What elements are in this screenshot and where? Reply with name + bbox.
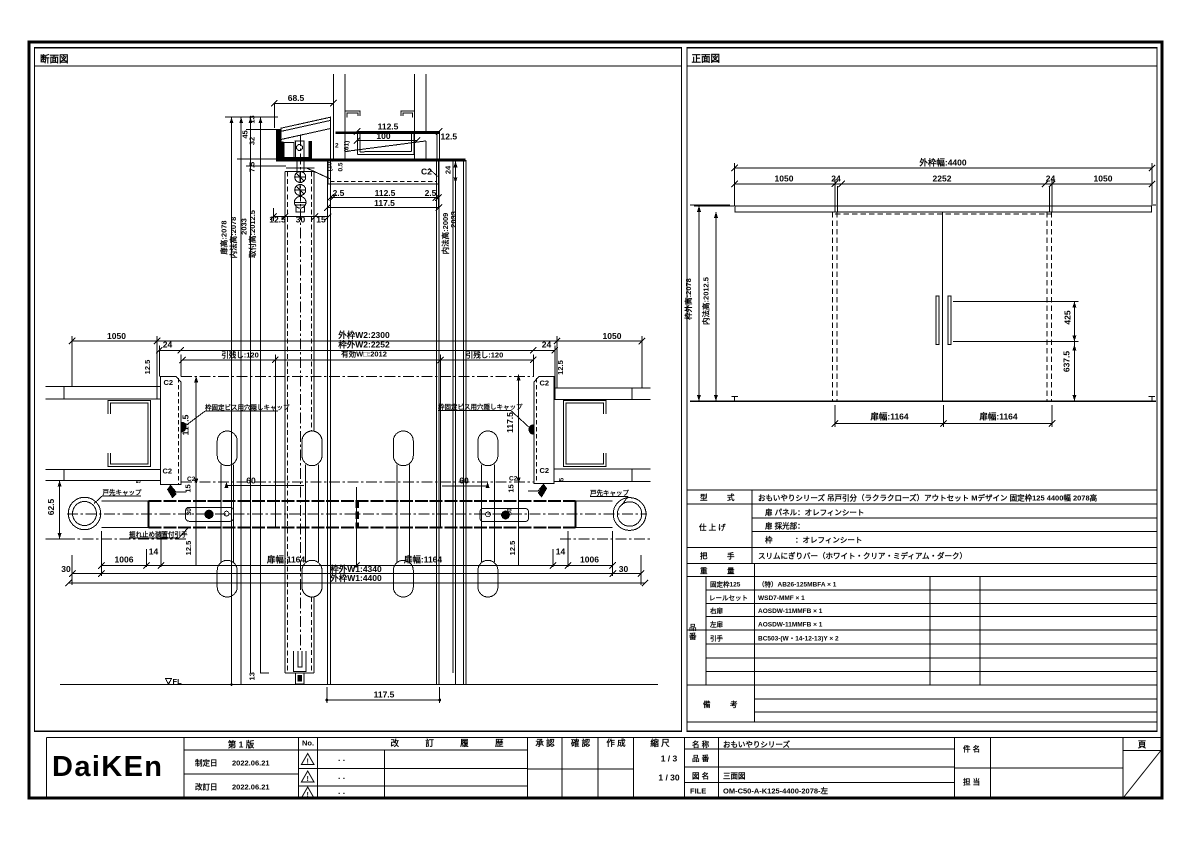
svg-text:正面図: 正面図 — [692, 54, 721, 65]
handle bar left door — [936, 296, 939, 344]
svg-text:!: ! — [307, 759, 309, 766]
dimension 117.5 jamb left — [195, 376, 197, 565]
spec row lines — [688, 503, 1157, 505]
svg-text:C2: C2 — [540, 466, 550, 475]
svg-text:12.5: 12.5 — [269, 215, 286, 225]
svg-text:扉幅:1164: 扉幅:1164 — [266, 555, 306, 565]
svg-text:425: 425 — [1062, 310, 1072, 324]
svg-text:量: 量 — [727, 566, 735, 576]
svg-text:5: 5 — [136, 479, 143, 483]
adjuster base — [296, 205, 305, 212]
svg-text:備: 備 — [703, 699, 711, 709]
hanger side bar right (solid) — [309, 141, 312, 160]
svg-text:スリムにぎりバー（ホワイト・クリア・ミディアム・ダーク）: スリムにぎりバー（ホワイト・クリア・ミディアム・ダーク） — [758, 551, 967, 561]
svg-text:引手: 引手 — [710, 633, 724, 642]
svg-text:112.5: 112.5 — [378, 122, 399, 132]
svg-text:確 認: 確 認 — [570, 738, 591, 748]
bottom dim row 4400 — [69, 582, 645, 584]
dim line 内法高2078 — [240, 117, 242, 684]
svg-text:32: 32 — [248, 137, 257, 145]
handle bar capsule 2 — [302, 431, 322, 466]
svg-text:100: 100 — [376, 131, 390, 141]
top frame bar (lintel) — [735, 206, 1152, 212]
floor guide foot — [295, 673, 304, 684]
floor guide (black U) — [294, 651, 307, 671]
cell dividers vertical — [183, 738, 185, 798]
svg-text:24: 24 — [1046, 173, 1056, 183]
ceiling line (thick) — [276, 159, 466, 162]
svg-text:BC503-(W・14-12-13)Y × 2: BC503-(W・14-12-13)Y × 2 — [758, 635, 839, 642]
svg-text:2252: 2252 — [933, 173, 952, 183]
wall lower-right (plan) — [554, 468, 650, 470]
rail end plate right — [436, 131, 438, 159]
dim line 2033 — [250, 117, 252, 673]
hanger bolt shaft (thick sides) — [294, 141, 296, 160]
dimension 2.5/112.5/2.5 — [330, 184, 332, 208]
svg-text:おもいやりシリーズ: おもいやりシリーズ — [723, 739, 790, 749]
door panel left edge — [284, 172, 286, 673]
hanging rail support (thick) — [336, 131, 441, 133]
plan dim row 1050/2300/1050 — [72, 340, 642, 342]
svg-text:!: ! — [307, 776, 309, 783]
wall stud channel right (plan) — [564, 401, 607, 467]
dimension 60 left — [226, 485, 304, 487]
FL level mark — [166, 679, 172, 685]
svg-text:把: 把 — [700, 551, 708, 561]
svg-text:番: 番 — [688, 631, 697, 641]
svg-text:内法高:2012.5: 内法高:2012.5 — [701, 277, 711, 325]
svg-text:12.5: 12.5 — [184, 541, 193, 556]
rail slope line to cover — [345, 141, 426, 152]
door band centerline dash — [67, 513, 647, 515]
svg-text:制定日: 制定日 — [195, 758, 218, 768]
svg-text:外枠W2:2300: 外枠W2:2300 — [337, 330, 390, 340]
rail cover dashed seam — [330, 181, 437, 183]
svg-text:件 名: 件 名 — [963, 744, 980, 754]
door leaf band bottom — [102, 526, 149, 528]
svg-text:C2: C2 — [164, 378, 174, 387]
dimension 117.5 (bottom) — [327, 699, 440, 701]
svg-text:2.5: 2.5 — [333, 188, 345, 198]
door panel right edge — [313, 172, 315, 432]
svg-text:手: 手 — [727, 551, 735, 561]
door meeting stile — [942, 212, 944, 401]
door band left end (thick) — [147, 501, 149, 528]
jamb fixing arrow right (solid) — [538, 484, 548, 498]
件名 block row — [955, 767, 1123, 769]
svg-text:枠 ：オレフィンシート: 枠 ：オレフィンシート — [764, 535, 862, 545]
ceiling line stubs — [690, 204, 730, 206]
bottom dim row 4340 — [72, 573, 641, 575]
recessed pull right — [480, 509, 529, 522]
wall lower-left (plan) — [46, 469, 161, 471]
dimension 13 (floor to door) — [260, 672, 269, 674]
dimension 117.5 (cover) — [328, 207, 440, 209]
rail cover box — [328, 161, 439, 184]
wall stud left pair — [333, 74, 335, 159]
dim line 取付高2012.5 — [260, 117, 262, 673]
hanger side bar left (solid) — [281, 142, 284, 160]
svg-text:1050: 1050 — [1094, 173, 1113, 183]
bottom dim row 14 left — [146, 549, 148, 558]
wall upper-left (plan) — [46, 386, 161, 388]
svg-text:三面図: 三面図 — [723, 772, 746, 781]
svg-text:117.5: 117.5 — [374, 198, 395, 208]
meeting stile dashes center — [356, 501, 359, 528]
svg-text:12.5: 12.5 — [441, 132, 458, 142]
svg-text:扉 パネル：オレフィンシート: 扉 パネル：オレフィンシート — [764, 507, 864, 517]
svg-text:. .: . . — [338, 786, 345, 796]
svg-text:図 名: 図 名 — [692, 771, 709, 781]
svg-text:24: 24 — [163, 340, 173, 350]
dimension 12.5/30/15 (door top) — [273, 216, 328, 218]
dimension 100 (rail) — [357, 140, 417, 142]
handle bar capsule 3 — [393, 431, 413, 466]
svg-text:(61): (61) — [344, 141, 351, 153]
extension line cover bottom — [246, 165, 286, 167]
door panel left inner (dashed) — [287, 172, 289, 673]
end cap circle right — [613, 498, 646, 531]
svg-text:名 称: 名 称 — [692, 739, 710, 749]
svg-text:68.5: 68.5 — [288, 93, 305, 103]
page cell row — [1123, 750, 1161, 752]
rail centerline dash-dot — [181, 481, 534, 483]
door centerline (dash-dot) — [299, 135, 301, 650]
dimension 112.5 (rail) — [357, 130, 439, 132]
svg-text:外枠幅:4400: 外枠幅:4400 — [918, 158, 967, 168]
revision area row lines — [184, 749, 528, 751]
svg-text:62.5: 62.5 — [46, 498, 56, 515]
door leaf left edge (double dashed) — [832, 212, 834, 401]
svg-text:固定枠125: 固定枠125 — [710, 580, 741, 589]
dimension 117.5 jamb right — [518, 374, 520, 565]
svg-text:1050: 1050 — [775, 173, 794, 183]
dimension 68.5 — [274, 102, 333, 104]
door panel right inner (dashed) — [311, 172, 313, 432]
svg-text:FILE: FILE — [690, 787, 706, 796]
svg-text:1006: 1006 — [115, 555, 134, 565]
title block outline — [47, 737, 1162, 739]
plan dim extension lines — [71, 336, 73, 387]
svg-text:断面図: 断面図 — [40, 54, 69, 66]
dim extension verticals top — [734, 163, 736, 206]
svg-text:右扉: 右扉 — [709, 606, 724, 615]
door leaf band top — [102, 500, 149, 502]
svg-text:30: 30 — [296, 215, 306, 225]
approval mid line — [528, 768, 634, 770]
svg-text:24: 24 — [831, 173, 841, 183]
svg-text:. .: . . — [338, 771, 345, 781]
svg-text:5: 5 — [559, 477, 566, 481]
plan dim row 24/2252/24 — [159, 349, 555, 351]
svg-text:枠固定ビス用穴隠しキャップ: 枠固定ビス用穴隠しキャップ — [205, 403, 290, 412]
svg-text:仕 上 げ: 仕 上 げ — [698, 522, 726, 532]
svg-text:2022.06.21: 2022.06.21 — [232, 783, 270, 792]
bottom dim row 14 right — [552, 549, 554, 558]
svg-text:No.: No. — [302, 739, 314, 748]
door fixing screw 1 — [295, 172, 306, 183]
dimension 枠外高:2078 — [698, 206, 700, 401]
rail cover chamfer C2 — [429, 169, 438, 177]
svg-text:AOSDW-11MMFB × 1: AOSDW-11MMFB × 1 — [758, 621, 823, 628]
wall upper-right (plan) — [554, 387, 650, 389]
svg-text:13: 13 — [248, 672, 257, 680]
door top plate — [286, 167, 315, 169]
svg-text:. .: . . — [338, 753, 345, 763]
svg-text:2: 2 — [335, 143, 339, 150]
svg-text:（特）AB26-125MBFA × 1: （特）AB26-125MBFA × 1 — [758, 580, 837, 589]
door fixing screw 2 — [295, 185, 306, 196]
door stop extension lines — [274, 355, 276, 529]
svg-text:117.5: 117.5 — [374, 690, 395, 700]
svg-text:14: 14 — [149, 547, 159, 557]
svg-text:戸先キャップ: 戸先キャップ — [103, 488, 143, 497]
svg-text:品: 品 — [689, 623, 697, 632]
extension line ceiling — [237, 158, 277, 160]
floor line — [60, 684, 658, 686]
ceiling clip left — [345, 111, 360, 118]
svg-text:頁: 頁 — [1138, 740, 1147, 750]
svg-text:2.5: 2.5 — [425, 188, 437, 198]
svg-text:C2: C2 — [509, 476, 518, 483]
svg-text:外枠W1:4400: 外枠W1:4400 — [329, 573, 382, 583]
hanger roller — [297, 145, 303, 151]
svg-text:2022.06.21: 2022.06.21 — [232, 759, 270, 768]
handle bar right door — [948, 296, 951, 344]
svg-text:117.5: 117.5 — [505, 412, 515, 433]
svg-text:2033: 2033 — [449, 211, 458, 228]
svg-text:112.5: 112.5 — [375, 188, 396, 198]
svg-text:DaiKEn: DaiKEn — [52, 751, 163, 783]
svg-text:12.5: 12.5 — [556, 360, 565, 375]
bracket cover inner slope — [281, 120, 331, 131]
svg-text:30: 30 — [186, 508, 193, 516]
svg-text:30: 30 — [619, 564, 629, 574]
jamb foot mark right — [1149, 397, 1156, 401]
svg-text:60: 60 — [459, 476, 469, 486]
svg-text:品 番: 品 番 — [692, 753, 710, 763]
wall stud channel left (plan) — [108, 401, 151, 467]
door travel line right dash-dot — [560, 538, 651, 540]
right panel label strip line — [687, 65, 1157, 67]
svg-text:扉幅:1164: 扉幅:1164 — [869, 412, 909, 422]
svg-text:承 認: 承 認 — [535, 738, 555, 748]
floor line (elevation) — [690, 400, 1156, 402]
plan dim row 引残し/有効W — [182, 359, 533, 361]
svg-text:担 当: 担 当 — [963, 777, 980, 787]
svg-text:1050: 1050 — [603, 331, 622, 341]
svg-text:0.5: 0.5 — [338, 162, 345, 171]
rail dashed behind lintel — [835, 213, 1052, 215]
svg-text:15: 15 — [507, 484, 516, 492]
svg-text:24: 24 — [542, 340, 552, 350]
wall finish line pair right — [452, 162, 454, 673]
svg-text:12.5: 12.5 — [508, 541, 517, 556]
hanger bolt — [297, 159, 304, 171]
svg-text:1006: 1006 — [580, 555, 599, 565]
left panel label strip line — [35, 65, 682, 67]
svg-text:C2: C2 — [540, 379, 550, 388]
dimension 扉幅:1164 x2 — [835, 423, 1052, 425]
svg-text:FL: FL — [173, 677, 183, 686]
svg-text:24: 24 — [444, 165, 453, 174]
jamb screw cap left (solid) — [181, 422, 187, 433]
dimension 60 right — [442, 485, 488, 487]
door fixing screw 3 (adjuster) — [294, 197, 306, 209]
name block rows — [684, 748, 954, 750]
hanger base plate (solid) — [281, 157, 312, 160]
svg-text:考: 考 — [730, 699, 738, 709]
handle bar capsule 1 — [217, 431, 237, 466]
svg-text:枠外W2:2252: 枠外W2:2252 — [338, 340, 390, 350]
dimension 24 (cover) rotated — [455, 161, 457, 183]
svg-text:13: 13 — [248, 115, 257, 123]
svg-text:!: ! — [307, 792, 309, 799]
svg-text:引残し:120: 引残し:120 — [221, 350, 259, 360]
svg-text:30: 30 — [506, 508, 513, 516]
dimension 62.5 — [59, 481, 61, 540]
svg-text:枠固定ビス用穴隠しキャップ: 枠固定ビス用穴隠しキャップ — [438, 402, 523, 411]
door band right end (thick) — [574, 501, 576, 528]
svg-text:レールセット: レールセット — [709, 594, 748, 602]
svg-text:1 / 30: 1 / 30 — [658, 773, 680, 783]
extension line top of dims — [225, 116, 278, 118]
svg-text:WSD7-MMF × 1: WSD7-MMF × 1 — [758, 595, 805, 602]
C2 leader bottom-left jamb — [170, 485, 186, 492]
spec table top line — [688, 489, 1157, 491]
svg-text:おもいやりシリーズ 吊戸引分（ラクラクローズ）アウトセット: おもいやりシリーズ 吊戸引分（ラクラクローズ）アウトセット Mデザイン 固定枠1… — [758, 493, 1098, 503]
ceiling clip right — [401, 111, 414, 118]
jamb fixing arrow left (solid) — [167, 485, 177, 499]
svg-text:扉幅:1164: 扉幅:1164 — [978, 412, 1018, 422]
bracket sloped cover — [281, 117, 331, 159]
warning triangles — [301, 754, 314, 765]
hanging rail C-profile — [358, 134, 414, 155]
svg-text:14: 14 — [556, 547, 566, 557]
svg-text:C2: C2 — [421, 167, 432, 177]
svg-text:重: 重 — [700, 566, 708, 576]
dimension 1050/24/2252/24/1050 — [735, 183, 1152, 185]
bracket wall plate (solid) — [276, 129, 281, 160]
svg-text:OM-C50-A-K125-4400-2078-左: OM-C50-A-K125-4400-2078-左 — [723, 786, 829, 796]
svg-text:縮 尺: 縮 尺 — [650, 738, 670, 748]
svg-text:有効W□:2012: 有効W□:2012 — [341, 349, 387, 359]
svg-text:7.5: 7.5 — [248, 162, 257, 172]
svg-text:改訂日: 改訂日 — [195, 782, 218, 792]
svg-text:第 1 版: 第 1 版 — [228, 740, 255, 750]
wall line right (thick pair) — [463, 160, 465, 685]
header projection dash-dot — [181, 376, 534, 378]
C2 leader bottom-right jamb — [528, 484, 544, 491]
bottom dim row 1006/1164 — [101, 565, 612, 567]
svg-text:15: 15 — [316, 215, 326, 225]
svg-text:637.5: 637.5 — [1061, 351, 1071, 373]
svg-text:枠外高:2078: 枠外高:2078 — [683, 278, 693, 321]
svg-text:作 成: 作 成 — [606, 738, 626, 748]
svg-text:左扉: 左扉 — [709, 619, 724, 628]
svg-text:60: 60 — [246, 476, 256, 486]
svg-text:12.5: 12.5 — [143, 360, 152, 375]
end cap circle left — [68, 497, 100, 529]
jamb foot mark left — [732, 397, 739, 401]
hanger body left block — [284, 142, 294, 158]
door bottom edge — [285, 672, 314, 674]
svg-text:15: 15 — [184, 484, 193, 492]
door leaf right edge (double dashed) — [1046, 212, 1048, 401]
dimension 外枠幅:4400 — [735, 167, 1152, 169]
svg-text:式: 式 — [727, 492, 735, 502]
svg-text:C2: C2 — [163, 467, 173, 476]
recessed pull left — [186, 507, 234, 521]
handle bar capsule 4 — [478, 431, 498, 466]
svg-text:内法高:2078: 内法高:2078 — [228, 217, 238, 259]
svg-text:型: 型 — [700, 492, 708, 502]
wall stud right pair — [413, 74, 415, 159]
fixed frame jamb right (plan) — [534, 376, 554, 483]
svg-text:扉高:2078: 扉高:2078 — [219, 220, 229, 255]
door travel line left dash-dot — [46, 538, 187, 540]
fixed frame jamb left (plan) — [161, 376, 182, 484]
svg-text:戸先キャップ: 戸先キャップ — [590, 488, 630, 497]
svg-text:117.5: 117.5 — [181, 414, 191, 435]
page cell diagonal — [1124, 751, 1161, 798]
frame jamb line right pair — [436, 160, 438, 685]
svg-text:取付高:2012.5: 取付高:2012.5 — [247, 210, 257, 258]
svg-text:扉 採光部：: 扉 採光部： — [764, 521, 805, 531]
svg-text:AOSDW-11MMFB × 1: AOSDW-11MMFB × 1 — [758, 608, 823, 615]
svg-text:扉幅:1164: 扉幅:1164 — [403, 555, 443, 565]
jamb screw cap right (solid) — [529, 424, 535, 435]
spec column lines — [751, 490, 753, 564]
dimension 内法高:2012.5 — [715, 212, 717, 401]
svg-text:30: 30 — [61, 564, 71, 574]
svg-text:1 / 3: 1 / 3 — [661, 754, 678, 764]
frame jamb line left pair — [327, 160, 329, 685]
left panel border — [35, 48, 682, 731]
extension line bracket top — [246, 128, 281, 130]
leader from hanger to cover — [307, 168, 331, 179]
bottom dim extension lines — [100, 531, 102, 576]
svg-text:改 訂 履 歴: 改 訂 履 歴 — [390, 738, 515, 748]
dimension 425 (handle) — [1073, 302, 1075, 342]
dimension 637.5 (handle to floor) — [1073, 342, 1075, 402]
dim line 扉高2078 — [231, 117, 233, 684]
right panel border — [687, 48, 1157, 731]
svg-text:1050: 1050 — [107, 331, 126, 341]
svg-text:引残し:120: 引残し:120 — [466, 350, 504, 360]
